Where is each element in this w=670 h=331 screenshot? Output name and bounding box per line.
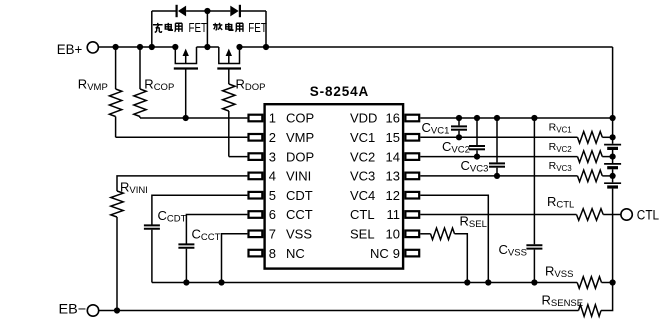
wire DOP pin3 (229, 156, 248, 158)
node rail junction diode branch left (149, 44, 155, 50)
svg-text:CTL: CTL (637, 207, 660, 222)
wire diode row (152, 10, 177, 12)
svg-text:VMP: VMP (286, 130, 314, 145)
node bus pin7 VSS junction (218, 279, 224, 285)
node rail junction diode branch right (263, 44, 269, 50)
svg-text:VINI: VINI (286, 169, 311, 184)
node VDD row CVC2 junction (474, 115, 480, 121)
node VC1 CVC1 junction (456, 134, 462, 140)
wire VC2 row (420, 156, 577, 158)
battery column (612, 118, 614, 144)
svg-text:10: 10 (386, 227, 400, 242)
capacitor CCDT (152, 195, 248, 225)
svg-text:15: 15 (386, 130, 400, 145)
node VC1 battery junction (610, 134, 616, 140)
node rail junction FET2 source (236, 44, 242, 50)
node bus CCCT junction (183, 279, 189, 285)
resistor RVMP (115, 47, 117, 89)
resistor RVSS (577, 277, 601, 289)
svg-text:4: 4 (269, 169, 276, 184)
svg-text:14: 14 (386, 149, 400, 164)
node CVSS bus junction (531, 279, 537, 285)
node VDD battery junction (610, 115, 616, 121)
wire COP pin1 (140, 117, 247, 119)
wire SEL row (420, 233, 430, 235)
label charge FET (Chinese) (153, 23, 163, 33)
label discharge FET (Chinese) (213, 23, 222, 30)
svg-text:9: 9 (393, 246, 400, 261)
svg-text:SEL: SEL (350, 227, 375, 242)
svg-text:5: 5 (269, 188, 276, 203)
wire VC4 to VSS bus (420, 195, 488, 282)
node rail junction RVMP (113, 44, 119, 50)
node VDD row CVSS junction (531, 115, 537, 121)
node VDD row CVC3 junction (494, 115, 500, 121)
diode D2 (body diode of discharge FET, cathode right) (230, 6, 238, 17)
svg-text:CDT: CDT (286, 188, 313, 203)
resistor RSEL (431, 228, 455, 240)
capacitor CVSS (533, 118, 535, 244)
terminal CTL (621, 209, 632, 220)
resistor RVINI (117, 176, 247, 191)
svg-text:3: 3 (269, 149, 276, 164)
node VDD row CVC1 junction (456, 115, 462, 121)
wire VC3 row (420, 175, 577, 177)
svg-text:S-8254A: S-8254A (310, 84, 369, 99)
svg-text:12: 12 (386, 188, 400, 203)
svg-text:FET: FET (248, 21, 267, 35)
diode D1 (body diode of charge FET, cathode left) (176, 5, 178, 17)
wire VC1 row (420, 136, 577, 138)
battery cell 3 (604, 182, 621, 184)
wire VDD row (420, 117, 612, 119)
resistor RCOP (139, 47, 141, 89)
wire EB+ rail drop to VDD node (612, 47, 614, 118)
battery cell 2 (604, 163, 621, 165)
node RVSS battery junction (610, 279, 616, 285)
svg-text:COP: COP (286, 111, 314, 126)
battery cell 1 (604, 144, 621, 146)
wire diode branch left (151, 11, 153, 47)
svg-text:VC3: VC3 (350, 169, 375, 184)
node rail junction RCOP (137, 44, 143, 50)
svg-text:VDD: VDD (350, 111, 377, 126)
wire diode branch right (265, 11, 267, 47)
wire CTL row (420, 214, 576, 216)
node diode center junction (204, 8, 210, 14)
resistor RCTL (577, 209, 604, 221)
svg-text:NC: NC (286, 246, 305, 261)
node VC2 CVC2 junction (474, 154, 480, 160)
svg-text:FET: FET (189, 21, 208, 35)
svg-text:1: 1 (269, 111, 276, 126)
svg-text:11: 11 (387, 207, 401, 222)
svg-text:VC1: VC1 (350, 130, 375, 145)
capacitor CVC2 (476, 118, 478, 145)
svg-text:8: 8 (269, 246, 276, 261)
wire diode center to rail (206, 11, 208, 47)
wire VSS bus (152, 282, 577, 284)
wire VMP pin2 (116, 136, 248, 138)
resistor RSENSE (579, 305, 602, 317)
svg-text:VSS: VSS (286, 227, 312, 242)
node RVINI EB- junction (114, 307, 120, 313)
svg-text:6: 6 (269, 207, 276, 222)
capacitor CCCT (186, 215, 247, 245)
svg-text:CTL: CTL (350, 207, 375, 222)
resistor RDOP (223, 84, 235, 111)
node VC2 battery junction (610, 154, 616, 160)
transistor discharge FET Q2 (219, 47, 240, 64)
svg-text:EB+: EB+ (57, 41, 83, 57)
node VC4 bus junction (485, 279, 491, 285)
pins right side 9-16 (405, 115, 419, 122)
svg-text:NC: NC (370, 246, 389, 261)
node RSEL bus junction (464, 279, 470, 285)
wire VSS pin7 to bus (222, 234, 248, 283)
wire battery to sense (601, 283, 613, 311)
capacitor CVC1 (458, 118, 460, 125)
svg-text:CCT: CCT (286, 207, 313, 222)
node COP gate junction (183, 115, 189, 121)
node rail junction FET midpoint (204, 44, 210, 50)
svg-text:7: 7 (269, 227, 276, 242)
pins left side 1-8 (249, 115, 263, 122)
svg-text:16: 16 (386, 111, 400, 126)
transistor charge FET Q1 (175, 47, 196, 64)
node rail junction FET1 drain (172, 44, 178, 50)
node VC3 CVC3 junction (494, 173, 500, 179)
wire EB- row (99, 310, 579, 312)
svg-text:VC4: VC4 (350, 188, 375, 203)
resistor RVC1 (578, 132, 603, 144)
svg-text:2: 2 (269, 130, 276, 145)
resistor RVC3 (578, 170, 603, 182)
svg-text:EB−: EB− (59, 301, 87, 317)
node VC3 battery junction (610, 173, 616, 179)
svg-text:13: 13 (386, 169, 400, 184)
resistor RVC2 (578, 151, 603, 163)
op-amp U1 S-8254A IC body (265, 104, 404, 268)
svg-text:DOP: DOP (286, 149, 314, 164)
wire EB+ rail (98, 46, 175, 48)
capacitor CVC3 (496, 118, 498, 162)
svg-text:VC2: VC2 (350, 149, 375, 164)
